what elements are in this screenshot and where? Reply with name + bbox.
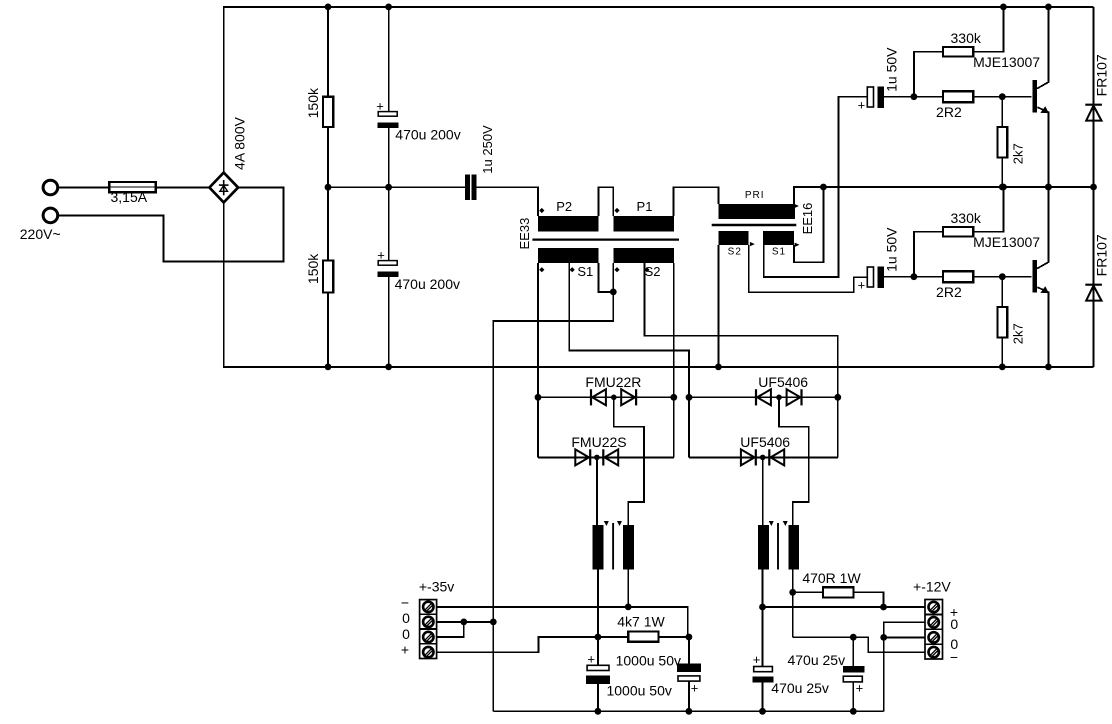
- svg-text:2k7: 2k7: [1011, 323, 1026, 344]
- core EE16: [712, 224, 797, 226]
- wire S1 mid to UF5406 left: [569, 263, 689, 397]
- wire FMU bracket left: [537, 397, 539, 457]
- resistor 150k (upper): [327, 7, 329, 97]
- capacitor 1000u 50v (right): [688, 637, 690, 664]
- svg-text:1000u 50v: 1000u 50v: [616, 653, 681, 669]
- winding S1 (EE16): [763, 231, 794, 245]
- winding L1b: [623, 525, 634, 569]
- node UF5406 row1 center: [776, 395, 782, 401]
- svg-text:+: +: [753, 652, 761, 667]
- capacitor 1u 250V: [465, 174, 470, 200]
- core EE33: [532, 238, 679, 240]
- svg-text:S1: S1: [772, 247, 786, 258]
- wire top rail: [224, 7, 1094, 173]
- wire output 0 rail: [493, 710, 883, 712]
- svg-text:1u 50V: 1u 50V: [884, 227, 900, 272]
- polarity dot P1: [614, 208, 619, 213]
- svg-text:0: 0: [402, 610, 410, 626]
- wire 0 rows to 0 rail: [884, 622, 925, 711]
- resistor 150k (lower): [327, 187, 329, 260]
- svg-text:2k7: 2k7: [1011, 143, 1026, 164]
- wire FMU bracket right: [673, 397, 675, 457]
- node 470R right / +12 row: [880, 604, 887, 611]
- wire mid rail left: [328, 186, 465, 188]
- polarity dot S2a: [614, 267, 619, 272]
- wire +12 row: [763, 606, 926, 608]
- polarity dot S1b: [570, 267, 575, 272]
- svg-text:4k7 1W: 4k7 1W: [617, 614, 665, 630]
- node bottom rail / 150k: [325, 364, 332, 371]
- svg-text:P1: P1: [637, 199, 653, 214]
- diode UF5406 r1a: [755, 389, 757, 405]
- node 1000u right 0 rail: [686, 708, 693, 715]
- polarity dot L1b: [617, 521, 622, 526]
- svg-text:150k: 150k: [305, 253, 321, 284]
- node mid rail / 150k: [325, 184, 332, 191]
- node emitter mid rail (upper): [1045, 184, 1052, 191]
- polarity dot S2b: [644, 267, 649, 272]
- fuse F1 3,15A: [109, 182, 156, 192]
- winding S2: [613, 248, 674, 263]
- polarity dot S1 (EE16): [795, 243, 800, 247]
- node 330k/2R2 (upper): [911, 93, 918, 100]
- wire +35 row: [437, 637, 598, 652]
- svg-text:0: 0: [402, 626, 410, 642]
- svg-text:FMU22R: FMU22R: [585, 374, 641, 390]
- wire bottom rail: [224, 202, 1094, 367]
- wire UF row1 center jog to inductor: [779, 397, 809, 525]
- wire base row (upper): [884, 96, 1032, 98]
- screw 2 (0): [929, 617, 939, 627]
- winding S1: [538, 248, 598, 263]
- svg-text:+: +: [858, 97, 866, 112]
- wire FMU22R row: [538, 396, 674, 398]
- winding P2: [538, 216, 598, 231]
- wire S1 left down to FMU22R: [537, 263, 539, 397]
- terminal block +-35v: [420, 600, 437, 659]
- node 470u right top: [850, 634, 857, 641]
- capacitor 470u 25v (right): [852, 637, 854, 666]
- screw 1 (+12): [929, 602, 939, 612]
- svg-text:P2: P2: [556, 199, 572, 214]
- core L2: [777, 523, 779, 570]
- node 330k/2R2 (lower): [911, 273, 918, 280]
- node FMU22R left: [535, 394, 542, 401]
- node collector top rail (upper): [1045, 4, 1052, 11]
- node collector mid rail (lower): [1045, 184, 1052, 191]
- node 0 join (12V): [880, 634, 887, 641]
- polarity dot P2: [539, 208, 544, 213]
- diode FMU22R b: [621, 389, 635, 405]
- svg-text:MJE13007: MJE13007: [973, 54, 1040, 70]
- diode FMU22R a: [590, 389, 592, 405]
- node 470u right 0 rail: [850, 708, 857, 715]
- resistor 2R2 (lower): [943, 271, 973, 282]
- winding L1a: [593, 525, 604, 569]
- diode UF5406 r2a: [741, 449, 755, 465]
- svg-text:0: 0: [950, 616, 958, 632]
- node top rail / 150k column: [325, 4, 332, 11]
- wire PRI right to mid node rail: [794, 187, 1094, 204]
- node UF5406 row1 right: [834, 394, 841, 401]
- node FMU22R center: [611, 395, 617, 401]
- wire UF5406 row1: [689, 396, 838, 398]
- svg-text:2R2: 2R2: [936, 284, 962, 300]
- node EE16 S2L bottom rail: [715, 364, 722, 371]
- capacitor 470u 200v (lower): [388, 187, 390, 260]
- svg-text:+: +: [376, 98, 384, 113]
- resistor 2k7 (lower): [1001, 277, 1003, 307]
- wire center tap to output 0: [493, 263, 613, 711]
- node FMU22S center: [594, 455, 600, 461]
- node 2k7 mid rail: [999, 184, 1006, 191]
- capacitor 1u 50V (upper): [867, 87, 873, 107]
- wire input N route: [57, 188, 283, 262]
- screw 4 (+): [423, 647, 433, 657]
- resistor 330k (lower): [943, 227, 973, 237]
- diode FMU22S b: [602, 449, 604, 465]
- node 0 join: [460, 619, 467, 626]
- terminal block +-12V: [925, 600, 943, 660]
- wire 0 row a: [437, 621, 494, 623]
- svg-text:330k: 330k: [951, 30, 982, 46]
- wire L2b bottom to 470R left: [792, 569, 794, 592]
- node center tap EE33: [610, 289, 617, 296]
- node 330k top rail: [1000, 4, 1007, 11]
- svg-text:220V~: 220V~: [20, 226, 61, 242]
- polarity dot L2a: [769, 521, 774, 526]
- wire FMU22S row: [538, 456, 674, 458]
- node FMU22R right: [670, 394, 677, 401]
- svg-text:3,15A: 3,15A: [111, 189, 148, 205]
- svg-text:FR107: FR107: [1094, 234, 1110, 276]
- capacitor 470u 25v (left): [754, 667, 773, 672]
- svg-text:−: −: [401, 594, 409, 610]
- winding L2a: [758, 525, 769, 569]
- svg-text:330k: 330k: [951, 210, 982, 226]
- svg-text:+: +: [691, 680, 699, 695]
- svg-text:EE33: EE33: [517, 218, 532, 250]
- terminal input N: [43, 208, 58, 223]
- wire FMU22S center to inductor: [596, 457, 598, 525]
- svg-text:S1: S1: [577, 264, 593, 279]
- svg-text:UF5406: UF5406: [758, 374, 808, 390]
- wire 0 row b: [437, 622, 464, 637]
- svg-text:470u 25v: 470u 25v: [787, 652, 845, 668]
- node L2a / +12 row: [759, 604, 766, 611]
- node 2k7 base (upper): [999, 93, 1006, 100]
- screw 2 (0): [423, 617, 433, 627]
- node 0 / center tap line: [490, 619, 497, 626]
- capacitor 470u 200v (upper): [388, 7, 390, 112]
- wire EE16 S2 right to lower base cap: [749, 245, 868, 292]
- svg-text:+: +: [377, 248, 385, 263]
- svg-text:470u 200v: 470u 200v: [395, 276, 460, 292]
- transistor Q1 MJE13007 (upper): [1032, 80, 1037, 113]
- svg-text:470R 1W: 470R 1W: [802, 570, 861, 586]
- diode FR107 (upper): [1093, 7, 1095, 187]
- wire FMU22R center jog to inductor: [614, 397, 644, 525]
- wire -35 row: [437, 607, 688, 637]
- polarity dot L2b: [783, 521, 788, 526]
- node 2k7 bottom rail: [999, 364, 1006, 371]
- polarity dot PRI: [794, 204, 799, 208]
- node UF5406 row1 left: [686, 394, 693, 401]
- wire bridge P2R-P1L: [598, 187, 613, 216]
- capacitor 1000u 50v (left): [597, 637, 599, 665]
- core L1: [612, 523, 614, 570]
- svg-text:FMU22S: FMU22S: [571, 434, 626, 450]
- svg-text:+-35v: +-35v: [419, 579, 454, 595]
- wire S1 right to center tap: [598, 263, 613, 292]
- polarity dot L1a: [604, 521, 609, 526]
- svg-text:MJE13007: MJE13007: [973, 234, 1040, 250]
- svg-text:EE16: EE16: [800, 203, 815, 235]
- wire base row (lower): [884, 276, 1032, 278]
- wire L1b bottom to -row: [627, 569, 629, 607]
- svg-text:+-12V: +-12V: [913, 578, 951, 594]
- diode UF5406 r2b: [768, 449, 770, 465]
- winding S2 (EE16): [718, 231, 748, 245]
- wire 470R left down: [792, 592, 794, 637]
- wire UF row2 center to inductor: [762, 457, 764, 525]
- svg-text:1000u 50v: 1000u 50v: [606, 683, 671, 699]
- svg-text:PRI: PRI: [745, 190, 765, 201]
- node S1R mid rail: [820, 184, 827, 191]
- svg-text:+: +: [858, 277, 866, 292]
- resistor 470R 1W: [793, 591, 823, 593]
- svg-text:4A 800V: 4A 800V: [232, 116, 248, 170]
- svg-text:470u 200v: 470u 200v: [395, 127, 460, 143]
- wire UF bracket left: [688, 397, 690, 457]
- transistor Q2 MJE13007 (lower): [1032, 260, 1037, 293]
- terminal input L: [43, 180, 58, 195]
- node 1000u left 0 rail: [595, 708, 602, 715]
- screw 1 (-): [423, 602, 433, 612]
- wire 0 row b (12V): [884, 636, 925, 638]
- wire input L to fuse: [57, 187, 110, 189]
- winding PRI: [718, 204, 795, 219]
- node emitter bottom rail (lower): [1045, 364, 1052, 371]
- diode FMU22S a: [575, 449, 589, 465]
- wire L1a bottom to +node: [597, 569, 599, 637]
- diode FR107 (lower): [1093, 187, 1095, 367]
- bridge rectifier 4A 800V: [209, 173, 238, 203]
- winding L2b: [789, 525, 800, 569]
- svg-text:UF5406: UF5406: [740, 434, 790, 450]
- svg-text:150k: 150k: [305, 87, 321, 118]
- resistor 2R2 (upper): [943, 91, 973, 102]
- screw 3 (0): [423, 632, 433, 642]
- node inductor L1b / -35 row: [625, 604, 632, 611]
- screw 4 (-12): [929, 647, 939, 657]
- svg-text:1u 50V: 1u 50V: [884, 47, 900, 92]
- svg-text:+: +: [587, 651, 595, 666]
- node top rail / 470u column: [385, 4, 392, 11]
- node 470u left 0 rail: [759, 708, 766, 715]
- screw 3 (0): [929, 632, 939, 642]
- node bottom rail / 470u: [385, 364, 392, 371]
- wire EE16 S2 left to bottom rail: [717, 245, 719, 367]
- wire S2 right down to FMU22R right: [673, 263, 675, 397]
- svg-text:+: +: [856, 681, 864, 696]
- svg-text:S2: S2: [728, 247, 742, 258]
- resistor 2k7 (upper): [1001, 97, 1003, 127]
- svg-text:FR107: FR107: [1094, 54, 1110, 96]
- wire bridge P1R-PRIL: [674, 187, 719, 216]
- node 2k7 base (lower): [999, 273, 1006, 280]
- node mid rail / FR107 column: [1090, 184, 1097, 191]
- svg-text:−: −: [950, 649, 958, 665]
- resistor 330k (upper): [943, 47, 973, 57]
- node 4k7 right: [686, 634, 693, 641]
- wire S2 mid to UF5406 right: [644, 263, 837, 397]
- svg-text:2R2: 2R2: [936, 104, 962, 120]
- wire UF5406 row2: [689, 456, 838, 458]
- wire mid rail to EE33 P2: [477, 187, 538, 216]
- svg-text:470u 25v: 470u 25v: [771, 680, 829, 696]
- node + / 4k7 left: [595, 634, 602, 641]
- diode UF5406 r1b: [787, 389, 801, 405]
- node mid rail / 470u: [385, 184, 392, 191]
- winding P1: [613, 216, 674, 231]
- wire EE16 S1 left to upper base cap: [764, 97, 868, 277]
- wire -12 line: [793, 637, 925, 652]
- svg-text:1u 250V: 1u 250V: [480, 125, 495, 174]
- wire L2a bottom to +12 row: [762, 569, 764, 666]
- resistor 4k7 1W: [598, 636, 628, 638]
- wire EE16 S1 right to mid node rail: [794, 187, 823, 262]
- wire UF bracket right: [837, 397, 839, 457]
- capacitor 1u 50V (lower): [867, 267, 873, 287]
- polarity dot S2 (EE16): [750, 242, 755, 246]
- svg-text:+: +: [401, 642, 409, 658]
- node 330k mid rail (lower): [1000, 184, 1007, 191]
- node UF5406 row2 center: [760, 455, 766, 461]
- node L2b / 470R left: [789, 589, 796, 596]
- wire fuse to bridge: [155, 187, 211, 189]
- polarity dot S1a: [539, 267, 544, 272]
